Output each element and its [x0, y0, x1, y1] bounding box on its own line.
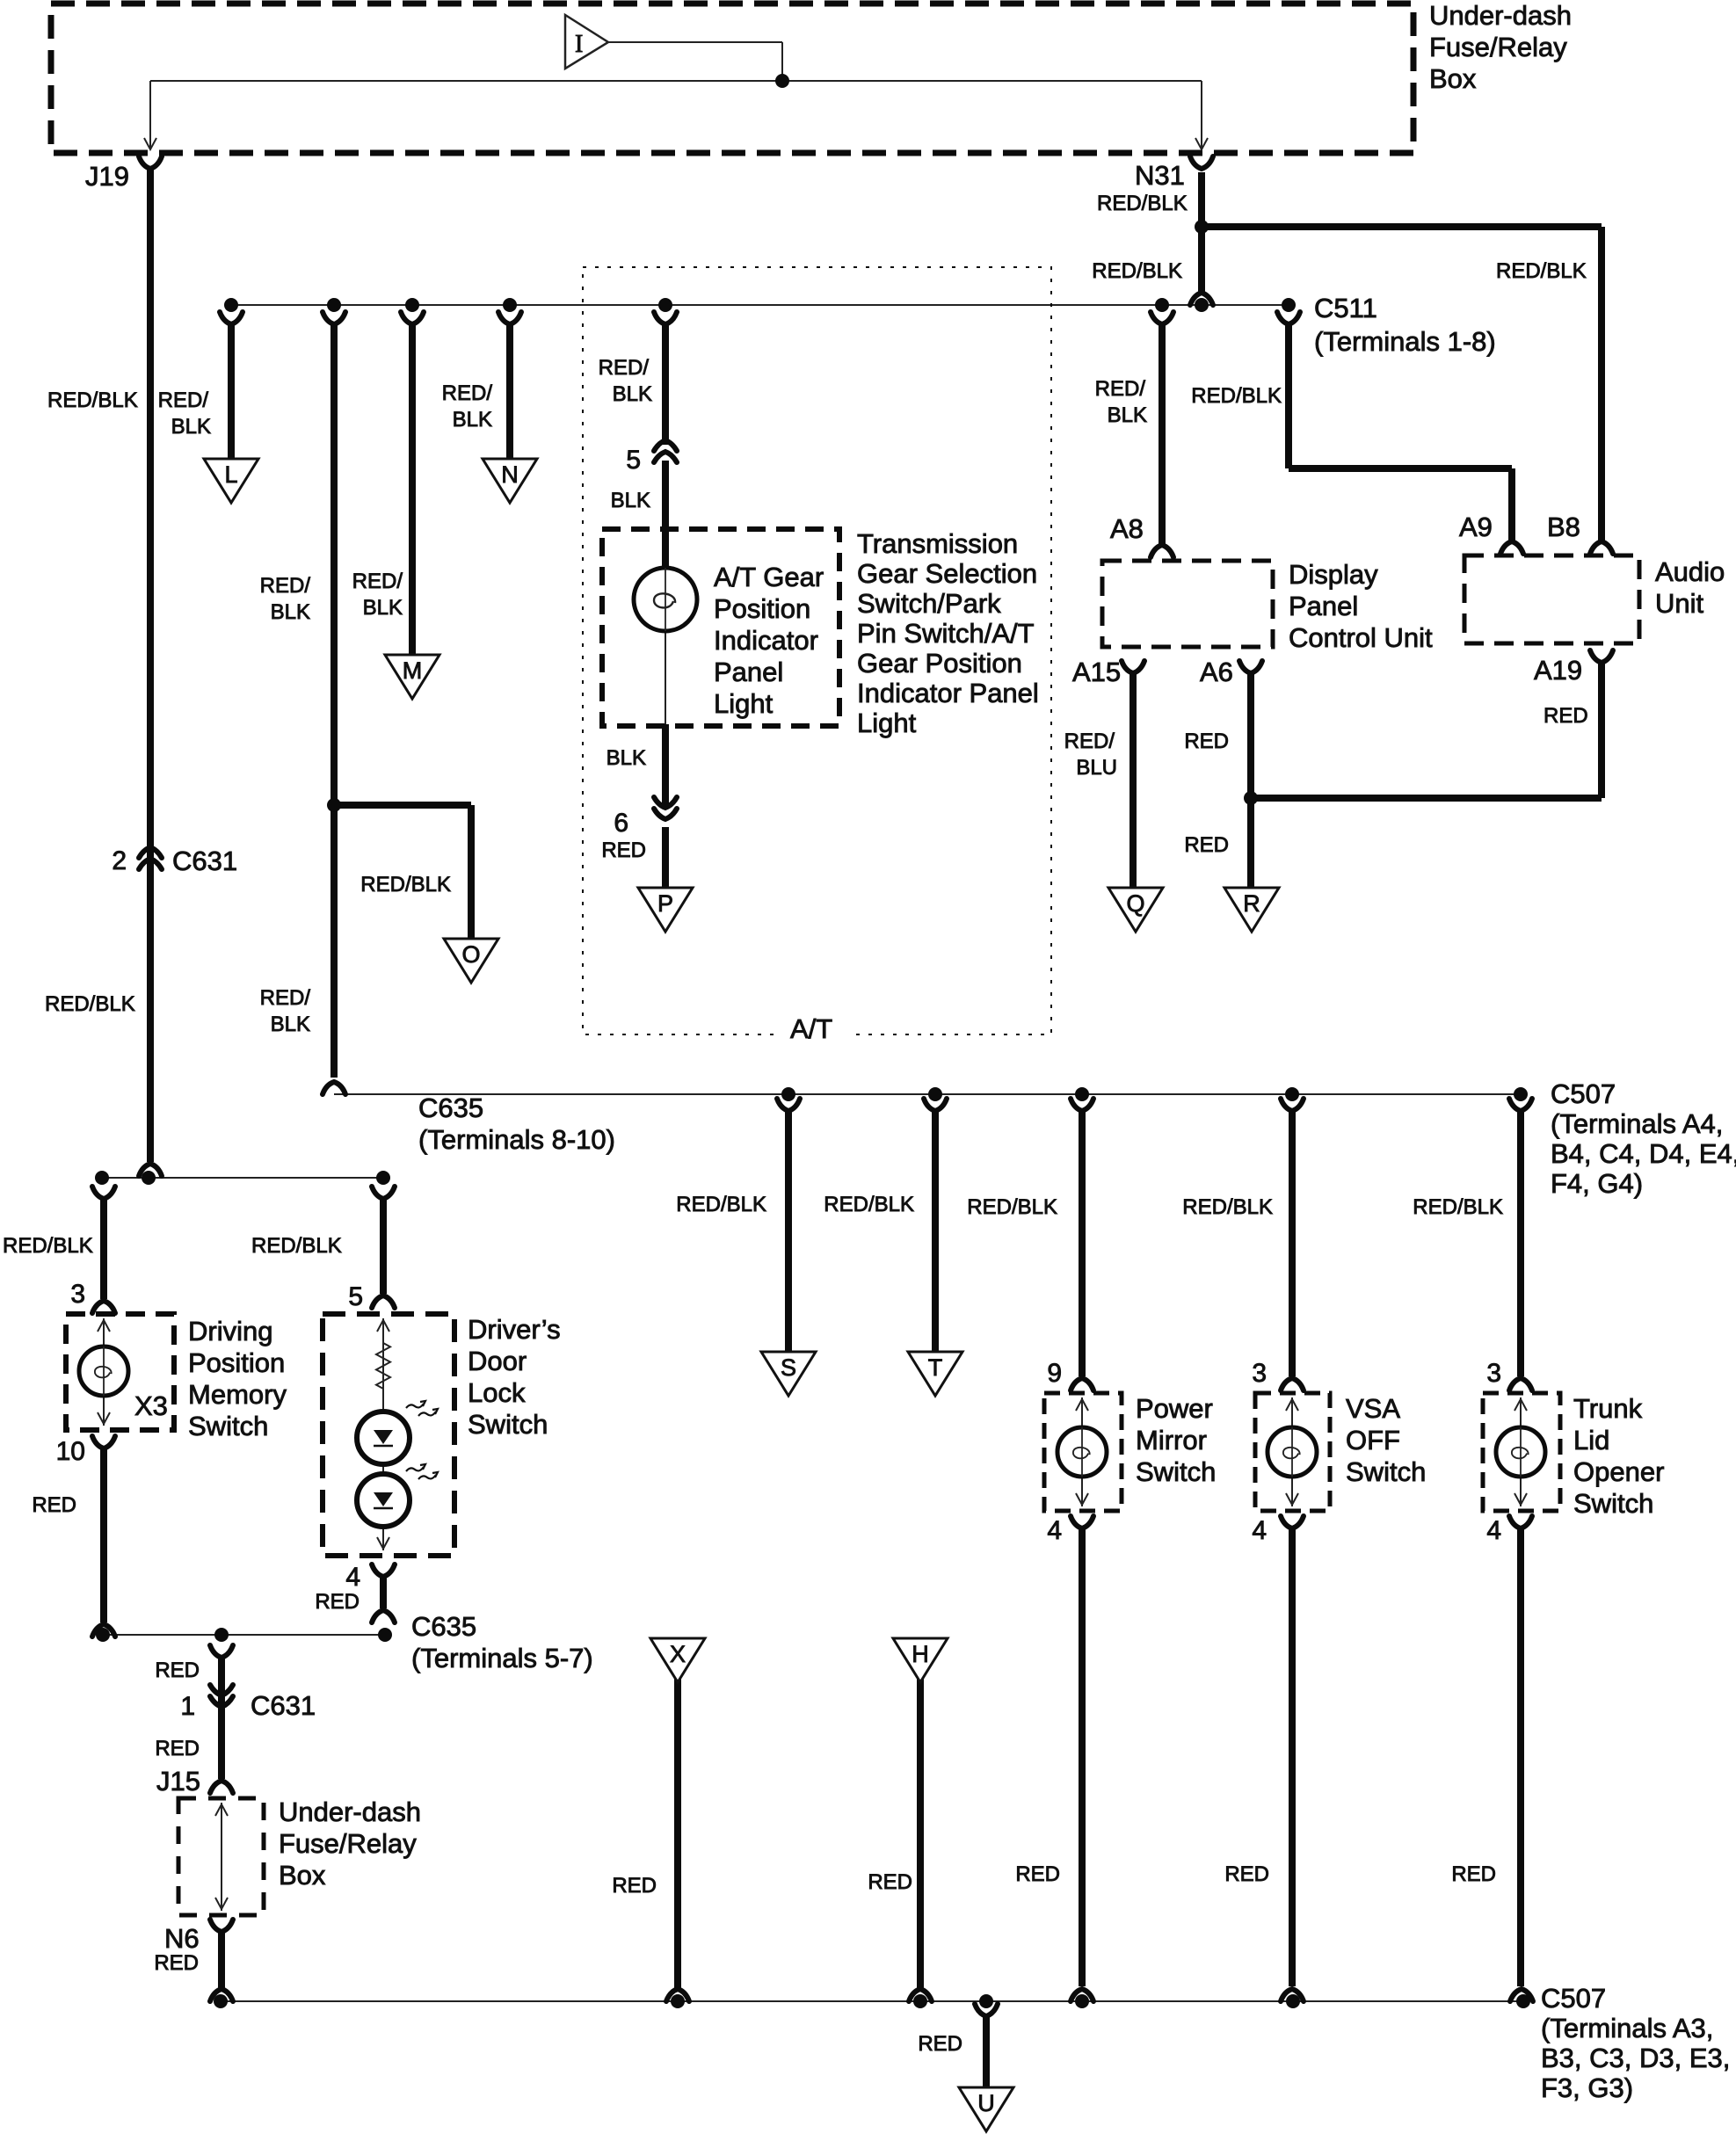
svg-text:Switch: Switch	[1346, 1456, 1426, 1487]
svg-text:Unit: Unit	[1655, 588, 1704, 619]
svg-text:A/T: A/T	[790, 1013, 832, 1044]
svg-text:Indicator: Indicator	[714, 625, 818, 656]
svg-text:A9: A9	[1459, 512, 1493, 542]
svg-text:10: 10	[56, 1437, 85, 1466]
svg-text:A15: A15	[1072, 657, 1121, 687]
svg-text:3: 3	[1486, 1359, 1501, 1388]
svg-text:Box: Box	[1429, 63, 1477, 94]
svg-text:(Terminals A3,: (Terminals A3,	[1541, 2013, 1713, 2043]
svg-text:C511: C511	[1314, 293, 1377, 323]
svg-text:RED/BLK: RED/BLK	[1097, 192, 1188, 215]
svg-text:X3: X3	[134, 1390, 168, 1421]
svg-text:(Terminals 8-10): (Terminals 8-10)	[418, 1124, 615, 1155]
svg-text:Mirror: Mirror	[1136, 1425, 1207, 1455]
svg-text:RED: RED	[155, 1737, 200, 1760]
svg-text:Opener: Opener	[1573, 1456, 1664, 1487]
svg-text:Transmission: Transmission	[857, 528, 1018, 559]
svg-text:H: H	[912, 1641, 929, 1667]
svg-text:Under-dash: Under-dash	[279, 1796, 421, 1827]
svg-text:RED/BLK: RED/BLK	[251, 1234, 342, 1258]
svg-text:J15: J15	[156, 1766, 200, 1796]
svg-text:6: 6	[614, 809, 628, 838]
svg-text:RED/BLK: RED/BLK	[967, 1195, 1057, 1219]
svg-text:C635: C635	[411, 1611, 476, 1642]
svg-text:RED: RED	[315, 1590, 360, 1614]
svg-text:Lock: Lock	[468, 1377, 526, 1408]
svg-text:RED: RED	[1184, 833, 1229, 857]
svg-text:RED: RED	[1224, 1862, 1269, 1886]
svg-text:Under-dash: Under-dash	[1429, 0, 1572, 31]
svg-text:RED/BLK: RED/BLK	[1092, 259, 1182, 283]
svg-text:Indicator Panel: Indicator Panel	[857, 678, 1039, 708]
svg-text:RED/: RED/	[1095, 377, 1146, 401]
svg-text:Position: Position	[714, 593, 810, 624]
svg-text:Driver’s: Driver’s	[468, 1314, 561, 1345]
svg-text:Light: Light	[714, 688, 774, 719]
svg-text:RED: RED	[612, 1874, 657, 1898]
svg-text:RED: RED	[1451, 1862, 1496, 1886]
svg-text:BLK: BLK	[271, 1013, 310, 1036]
svg-text:RED: RED	[1184, 729, 1229, 753]
svg-text:I: I	[575, 31, 583, 58]
svg-text:RED: RED	[32, 1493, 76, 1517]
svg-text:Light: Light	[857, 708, 917, 738]
svg-text:Lid: Lid	[1573, 1425, 1609, 1455]
svg-text:BLK: BLK	[453, 408, 492, 432]
svg-text:RED/: RED/	[1064, 729, 1115, 753]
svg-text:4: 4	[1047, 1516, 1062, 1545]
svg-text:Switch: Switch	[1136, 1456, 1216, 1487]
svg-text:5: 5	[626, 446, 641, 475]
svg-text:(Terminals 1-8): (Terminals 1-8)	[1314, 326, 1496, 357]
svg-text:Fuse/Relay: Fuse/Relay	[279, 1828, 417, 1859]
svg-text:RED: RED	[601, 838, 646, 862]
svg-text:RED: RED	[1015, 1862, 1060, 1886]
svg-text:RED/BLK: RED/BLK	[47, 388, 138, 412]
svg-text:RED/BLK: RED/BLK	[360, 873, 451, 896]
svg-text:9: 9	[1047, 1359, 1062, 1388]
svg-text:Position: Position	[188, 1347, 285, 1378]
svg-text:C507: C507	[1551, 1078, 1616, 1109]
svg-text:X: X	[670, 1641, 686, 1667]
svg-text:2: 2	[112, 846, 127, 875]
svg-text:P: P	[657, 890, 673, 917]
svg-text:Driving: Driving	[188, 1316, 272, 1346]
svg-text:U: U	[977, 2090, 995, 2116]
svg-text:Door: Door	[468, 1346, 527, 1376]
svg-text:BLK: BLK	[607, 746, 646, 770]
svg-text:RED/: RED/	[260, 986, 311, 1010]
svg-text:Audio: Audio	[1655, 556, 1725, 587]
svg-text:Switch/Park: Switch/Park	[857, 588, 1001, 619]
svg-text:Box: Box	[279, 1860, 326, 1891]
svg-text:C507: C507	[1541, 1983, 1606, 2014]
svg-text:VSA: VSA	[1346, 1393, 1400, 1424]
svg-text:Pin Switch/A/T: Pin Switch/A/T	[857, 618, 1035, 649]
svg-text:RED/BLK: RED/BLK	[1496, 259, 1587, 283]
svg-text:RED/BLK: RED/BLK	[824, 1193, 914, 1216]
svg-text:M: M	[403, 657, 423, 684]
svg-text:Gear Position: Gear Position	[857, 648, 1022, 679]
svg-text:RED/BLK: RED/BLK	[45, 992, 135, 1016]
svg-text:4: 4	[1252, 1516, 1267, 1545]
svg-text:F4, G4): F4, G4)	[1551, 1168, 1643, 1199]
svg-text:BLK: BLK	[613, 382, 652, 406]
svg-text:BLK: BLK	[363, 596, 403, 620]
svg-text:Control Unit: Control Unit	[1289, 622, 1433, 653]
svg-text:F3, G3): F3, G3)	[1541, 2072, 1633, 2103]
svg-text:RED/BLK: RED/BLK	[3, 1234, 93, 1258]
svg-text:5: 5	[348, 1282, 363, 1311]
svg-text:OFF: OFF	[1346, 1425, 1400, 1455]
svg-text:BLK: BLK	[271, 600, 310, 624]
svg-text:3: 3	[1252, 1359, 1267, 1388]
svg-text:N6: N6	[164, 1923, 200, 1954]
svg-text:RED: RED	[155, 1659, 200, 1682]
svg-text:(Terminals A4,: (Terminals A4,	[1551, 1108, 1723, 1139]
svg-text:Power: Power	[1136, 1393, 1213, 1424]
svg-text:B4, C4, D4, E4,: B4, C4, D4, E4,	[1551, 1138, 1736, 1169]
svg-text:Panel: Panel	[714, 657, 783, 687]
svg-text:RED/BLK: RED/BLK	[1182, 1195, 1273, 1219]
svg-text:C631: C631	[251, 1690, 316, 1721]
svg-text:RED/BLK: RED/BLK	[1413, 1195, 1503, 1219]
svg-text:R: R	[1243, 890, 1260, 917]
svg-text:(Terminals 5-7): (Terminals 5-7)	[411, 1643, 593, 1673]
svg-text:C631: C631	[172, 846, 237, 876]
svg-text:BLK: BLK	[611, 489, 650, 512]
svg-text:C635: C635	[418, 1092, 483, 1123]
svg-text:B3, C3, D3, E3,: B3, C3, D3, E3,	[1541, 2043, 1730, 2073]
svg-text:T: T	[928, 1354, 943, 1381]
svg-text:RED: RED	[154, 1951, 199, 1975]
svg-text:S: S	[781, 1354, 796, 1381]
svg-text:Fuse/Relay: Fuse/Relay	[1429, 32, 1567, 62]
svg-text:RED/: RED/	[599, 356, 650, 380]
svg-text:RED/BLK: RED/BLK	[1191, 384, 1282, 408]
svg-text:Switch: Switch	[468, 1409, 548, 1440]
svg-text:RED/: RED/	[352, 570, 403, 593]
svg-text:RED: RED	[1544, 704, 1588, 728]
svg-text:RED: RED	[918, 2032, 962, 2056]
svg-text:1: 1	[180, 1692, 195, 1721]
svg-text:BLU: BLU	[1076, 756, 1117, 780]
svg-text:N31: N31	[1135, 160, 1185, 191]
svg-text:RED/: RED/	[442, 381, 493, 405]
svg-text:BLK: BLK	[171, 415, 211, 439]
svg-text:Switch: Switch	[1573, 1488, 1653, 1519]
svg-text:RED/BLK: RED/BLK	[676, 1193, 766, 1216]
svg-text:RED/: RED/	[158, 388, 209, 412]
svg-text:B8: B8	[1547, 512, 1580, 542]
svg-text:A19: A19	[1534, 655, 1582, 686]
svg-text:Gear Selection: Gear Selection	[857, 558, 1037, 589]
svg-text:Q: Q	[1126, 890, 1144, 917]
svg-text:O: O	[461, 941, 480, 968]
svg-text:RED: RED	[868, 1870, 912, 1894]
svg-text:3: 3	[70, 1280, 85, 1309]
svg-text:RED/: RED/	[260, 574, 311, 598]
svg-text:4: 4	[1486, 1516, 1501, 1545]
svg-text:J19: J19	[85, 161, 129, 192]
svg-text:4: 4	[345, 1563, 360, 1592]
svg-text:BLK: BLK	[1108, 403, 1147, 427]
svg-text:L: L	[224, 461, 237, 488]
svg-text:Memory: Memory	[188, 1379, 287, 1410]
svg-text:A/T Gear: A/T Gear	[714, 562, 824, 592]
svg-text:A8: A8	[1110, 513, 1144, 544]
svg-text:N: N	[501, 461, 519, 488]
svg-text:Display: Display	[1289, 559, 1378, 590]
svg-text:Switch: Switch	[188, 1411, 268, 1441]
svg-text:Panel: Panel	[1289, 591, 1358, 621]
svg-text:A6: A6	[1200, 657, 1233, 687]
svg-text:Trunk: Trunk	[1573, 1393, 1643, 1424]
